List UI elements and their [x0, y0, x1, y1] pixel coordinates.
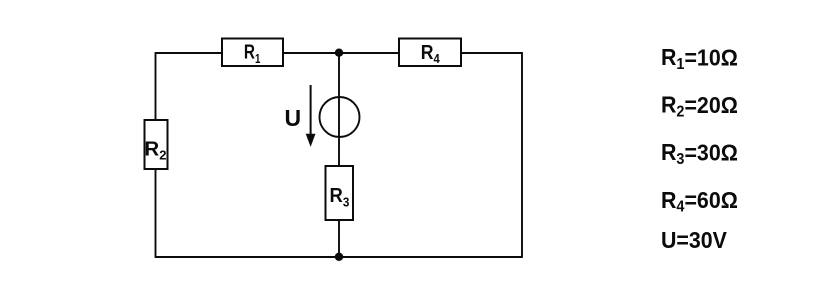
svg-text:R3=30Ω: R3=30Ω: [661, 139, 738, 168]
wire right vertical: [521, 52, 523, 258]
resistor R2: [144, 120, 167, 169]
wire R4 to top-right corner: [460, 52, 522, 54]
wire top-left horizontal (corner to R1): [156, 52, 224, 54]
wire left vertical below R2: [155, 168, 157, 258]
svg-text:U=30V: U=30V: [661, 227, 727, 253]
resistor R3: [326, 166, 354, 220]
wire top junction to R4: [339, 52, 400, 54]
svg-text:R1=10Ω: R1=10Ω: [661, 44, 738, 73]
wire bottom horizontal: [156, 256, 523, 258]
resistor R4: [399, 39, 461, 67]
resistor R1: [222, 39, 283, 67]
wire center vertical (top junction through source to R3): [338, 53, 340, 167]
node top junction: [335, 49, 343, 57]
svg-text:R4=60Ω: R4=60Ω: [661, 187, 738, 216]
node bottom junction: [335, 253, 343, 261]
wire R1 to top junction: [282, 52, 339, 54]
wire center vertical (R3 to bottom junction): [338, 219, 340, 257]
arrow for U (direction arrow): [306, 85, 316, 147]
svg-text:U: U: [285, 105, 302, 131]
wire left vertical above R2: [155, 52, 157, 121]
voltage source U (circle): [320, 97, 360, 137]
svg-text:R2=20Ω: R2=20Ω: [661, 92, 738, 121]
